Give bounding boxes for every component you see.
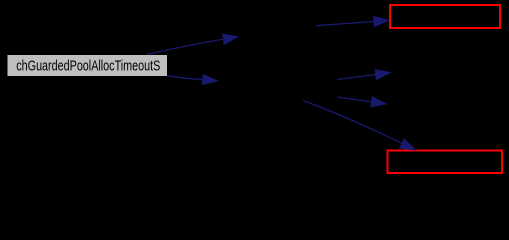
wire: edge E3 from hidden node A to red truncated node (top): [316, 22, 374, 26]
arrowhead of edge E6: [399, 139, 416, 151]
arrowhead of edge E1: [222, 34, 238, 44]
wire: edge E1 from chGuardedPoolAllocTimeoutS to hidden node A: [147, 39, 223, 54]
wire: edge E2 from chGuardedPoolAllocTimeoutS to hidden node B: [168, 76, 203, 80]
arrowhead of edge E4: [375, 69, 391, 80]
arrowhead of edge E2: [202, 74, 218, 85]
svg-text:chGuardedPoolAllocTimeoutS: chGuardedPoolAllocTimeoutS: [16, 59, 160, 75]
wire: edge E4 from hidden node B to hidden node C: [337, 74, 376, 79]
node chGuardedPoolAllocTimeoutS (grey source box): [8, 55, 168, 76]
wire: edge E6 from hidden node B to red truncated node (bottom): [303, 101, 402, 144]
arrowhead of edge E5: [371, 97, 387, 108]
node: truncated callee (top right, red outline): [390, 5, 500, 28]
arrowhead of edge E3: [373, 16, 389, 27]
wire: edge E5 from hidden node B to hidden node D: [337, 97, 371, 102]
node: truncated callee (bottom right, red outline): [388, 151, 503, 174]
